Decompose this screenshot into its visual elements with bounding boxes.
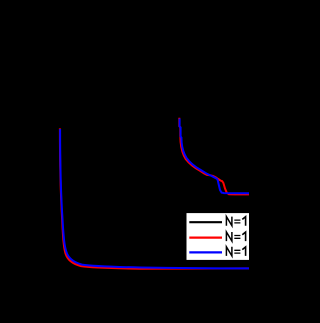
curve 1 red (left L-curve, red series) bbox=[60, 128, 249, 268]
legend sample line black (N=1 black) bbox=[189, 221, 222, 223]
legend box bbox=[186, 212, 256, 261]
legend label N=1 (red row) bbox=[226, 232, 245, 241]
legend label N=1 (blue row) bbox=[226, 247, 245, 256]
curve 2 red (right L-curve, red series) bbox=[179, 118, 249, 195]
curve 2 blue (right L-curve, blue series) bbox=[180, 119, 249, 194]
curve 1 blue (left L-curve, blue series) bbox=[60, 129, 249, 268]
legend label N=1 (black row) bbox=[226, 217, 245, 226]
legend sample line blue (N=1 blue) bbox=[189, 251, 222, 253]
legend sample line red (N=1 red) bbox=[189, 237, 222, 239]
